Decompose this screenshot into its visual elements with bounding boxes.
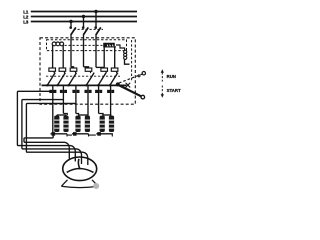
node tap junction pole2 [82,15,85,18]
arrow START dashed [161,86,163,95]
wire tap drop 3 [75,85,77,113]
switch blade pole2 [84,27,89,34]
lever knob RUN [142,72,145,75]
wire motor lead 1 [17,91,75,161]
grey dot [93,183,99,189]
node blade foot 6 [109,84,111,86]
autotransformer winding B coil 1 [75,116,80,132]
motor fan blade left [67,169,80,173]
contact T6 [111,68,118,71]
wire motor lead 4 from winding A [24,136,69,159]
wire winding B top link [78,114,87,116]
wire motor lead 3 [26,103,87,165]
autotransformer winding B coil 2 [85,116,90,132]
lever arm START [117,84,141,96]
wire pole3 drop [95,12,97,28]
wire pole2 lower [83,34,85,67]
linkage dashed (contact gang) [46,75,120,77]
motor M body [63,157,97,181]
contact T5 [101,68,108,71]
wire bus L3 [31,21,137,23]
node winding A bottom square [52,132,56,136]
wire pole1 lower [70,34,72,67]
contact T4 [85,68,92,71]
wire OL2 right lead [114,47,116,68]
wire tap drop 1 [52,85,54,133]
wire motor lead 2 [22,100,82,164]
wire winding C top link [102,114,111,116]
wire pole2 drop [83,17,85,28]
arrow START head [161,94,164,97]
moving contact blade 3 [69,73,77,86]
switch blade pole1 [71,27,76,34]
node junction square 4 [85,90,88,93]
moving contact blade 5 [98,73,106,86]
arrow RUN dashed [161,73,163,82]
wire tap 2 jog to winding [63,114,67,116]
autotransformer winding C coil 1 [100,116,105,132]
node blade foot 2 [56,84,58,86]
moving contact blade 4 [86,73,94,86]
autotransformer winding A coil 1 [54,116,59,132]
node phantom knob dot [138,75,140,77]
overload heater OL1 [52,42,63,46]
wire pole1 drop [70,22,72,28]
wire winding B bottom [72,133,89,135]
moving contact blade 6 [110,73,118,86]
lever pivot [116,82,120,86]
motor base [61,180,98,188]
node blade foot 4 [85,84,87,86]
wire winding A bottom [51,133,68,135]
autotransformer winding A coil 2 [63,116,68,132]
crossbar [42,84,127,86]
wire winding A top link [57,114,66,116]
contact T3 [70,68,77,71]
svg-text:L3: L3 [23,20,29,25]
wire OL2 left lead [103,47,105,68]
wire pole1 jog [71,67,74,68]
node tap junction pole3 [94,10,97,13]
arrow RUN head [161,69,164,72]
svg-text:RUN: RUN [167,74,176,79]
node junction square 3 [72,90,75,93]
node winding C bottom square [97,132,101,136]
node junction square 5 [95,90,98,93]
wire trip linkage dashed [131,40,133,82]
overload heater OL2 [103,43,116,47]
wire OL2 to trip spring [116,45,125,50]
wire overload trip bar dashed [65,44,103,46]
wire winding interlink [67,134,113,137]
wire OL1 right lead [62,45,64,69]
node blade foot 3 [67,84,69,86]
switch blade pole3 [96,27,101,34]
wire tap 3 jog to winding [76,114,79,116]
wire pole2 jog [84,67,89,68]
node junction square 1 [49,90,52,93]
moving contact blade 2 [58,73,66,86]
wire bus L1 [31,11,137,13]
node crossing mark [126,83,131,88]
motor fan blade right [80,169,94,173]
node pole1 fixed contact [69,26,72,29]
node junction square 6 [107,90,110,93]
lever arm RUN phantom dashed [119,74,143,83]
wire tap drop 4 [87,85,89,116]
node tap junction pole1 [69,20,72,23]
node junction square 2 [60,90,63,93]
lever knob START [141,95,145,99]
enclosure inner dashed box (overload block) [47,40,127,51]
wire tap drop 5 [98,85,100,113]
wire tap 5 jog to winding [99,114,103,116]
wire tap drop 6 [110,85,112,116]
enclosure outer dashed box [40,38,135,104]
wire OL1 left lead [52,45,54,69]
linkage dashed (switch gang) [74,28,104,30]
wire winding C bottom [96,133,113,135]
wire pole3 lower [95,34,97,67]
contact T2 [59,68,66,71]
wire tap drop 2 [62,85,64,113]
contact T1 [49,68,56,71]
trip spring [124,50,127,59]
motor fan blade up [78,159,79,169]
wire trip spring foot [125,59,130,64]
node blade foot 5 [97,84,99,86]
node blade foot 1 [46,84,48,86]
wire bus L2 [31,16,137,18]
svg-text:START: START [167,88,181,93]
node winding B bottom square [73,132,77,136]
node pole2 fixed contact [82,26,85,29]
autotransformer winding C coil 2 [109,116,114,132]
wire pole3 jog [96,66,104,68]
motor hub [79,168,81,170]
node pole3 fixed contact [94,26,97,29]
wire contact tails [54,71,116,73]
moving contact blade 1 [47,73,55,86]
